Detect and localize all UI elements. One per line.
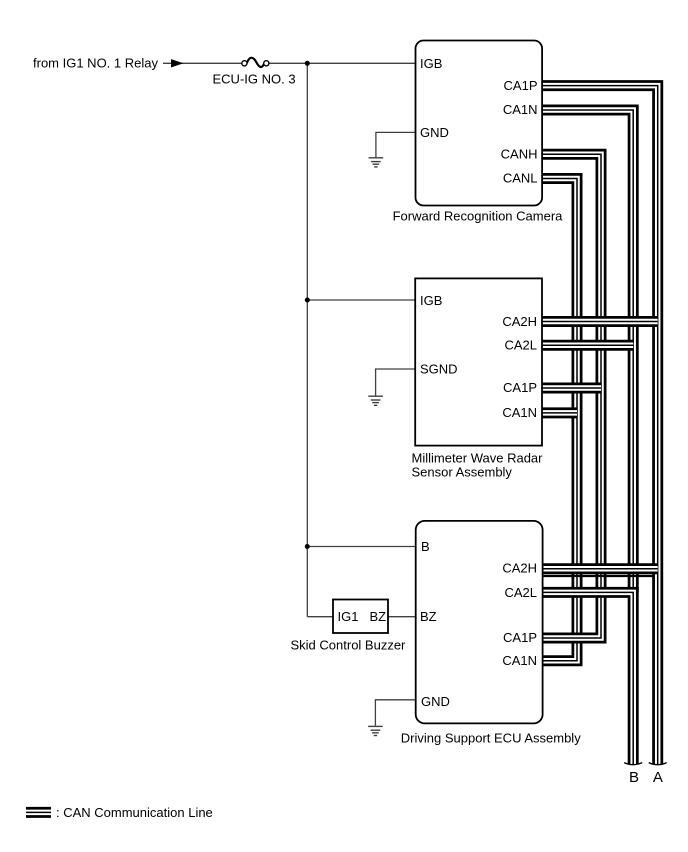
node: junction dot at ECU B branch <box>305 544 310 549</box>
svg-text:BZ: BZ <box>420 609 437 624</box>
svg-text:SGND: SGND <box>420 362 458 377</box>
wire: ECU GND lead <box>375 700 416 726</box>
wire: radar CA1P bundle to net CANH <box>542 383 601 394</box>
svg-text:B: B <box>421 539 430 554</box>
svg-text:CA2H: CA2H <box>502 560 537 575</box>
svg-text:CA2L: CA2L <box>504 338 537 353</box>
arrow: feed direction arrow head <box>171 59 184 67</box>
svg-text:CA1P: CA1P <box>503 380 537 395</box>
ground: camera GND earth symbol <box>369 158 384 167</box>
svg-text:CA1P: CA1P <box>503 630 537 645</box>
svg-text:Skid Control Buzzer: Skid Control Buzzer <box>291 637 407 652</box>
svg-text:IGB: IGB <box>420 56 442 71</box>
svg-text:CANL: CANL <box>503 171 538 186</box>
svg-text:CA1P: CA1P <box>504 78 538 93</box>
node: stub A break symbol <box>649 763 667 765</box>
wire: buzzer feed horizontal to IG1 pin <box>307 616 333 618</box>
wire: main IG vertical bus x=306 down to buzzer row <box>306 63 308 616</box>
svg-text:BZ: BZ <box>370 609 387 624</box>
legend: CAN line sample symbol <box>26 807 51 818</box>
ground: radar SGND earth symbol <box>368 396 383 405</box>
CAN net CANH: camera CANH down x=601.5 to ECU CA1P <box>543 154 602 638</box>
wire: ECU CA2H bundle to bus A <box>543 563 658 574</box>
component U1: Forward Recognition Camera box <box>416 41 543 206</box>
svg-text:Millimeter Wave Radar: Millimeter Wave Radar <box>412 451 544 466</box>
svg-text:Sensor Assembly: Sensor Assembly <box>412 465 513 480</box>
ground: ECU GND earth symbol <box>368 726 383 735</box>
svg-text:IGB: IGB <box>420 293 442 308</box>
wire: radar CA2H bundle to bus A <box>542 316 658 327</box>
svg-text:Driving Support ECU Assembly: Driving Support ECU Assembly <box>401 731 581 746</box>
wire: radar CA1N bundle to net CANL <box>542 407 577 418</box>
node: stub B break symbol <box>624 763 642 765</box>
wire: branch to ECU pin B <box>307 546 416 548</box>
svg-text:B: B <box>629 769 639 786</box>
svg-text:CA2H: CA2H <box>502 314 537 329</box>
svg-text:Forward Recognition Camera: Forward Recognition Camera <box>393 208 564 223</box>
wire: ECU CA2H fourth line <box>543 575 653 577</box>
CAN bus B line: camera CA1N down to ECU CA2L row (x=633.2) <box>543 110 634 592</box>
wire: IG1 feed horizontal from arrow to camera IGB <box>163 62 243 64</box>
wire: buzzer BZ to ECU BZ <box>388 616 416 618</box>
wire: ECU CA2L bundle corner down to stub B <box>543 592 633 764</box>
svg-text:IG1: IG1 <box>338 609 359 624</box>
svg-text:GND: GND <box>420 125 449 140</box>
svg-text:CA2L: CA2L <box>504 585 537 600</box>
svg-text:CANH: CANH <box>501 147 538 162</box>
node: junction dot at fuse output <box>305 61 310 66</box>
svg-text:CA1N: CA1N <box>502 653 537 668</box>
svg-text:ECU-IG NO. 3: ECU-IG NO. 3 <box>213 72 296 87</box>
fuse F ECU-IG NO. 3 <box>242 58 269 67</box>
svg-text:from IG1 NO. 1 Relay: from IG1 NO. 1 Relay <box>33 56 158 71</box>
component U3: Driving Support ECU Assembly box <box>416 521 543 724</box>
wire: camera GND lead <box>376 132 415 157</box>
svg-text:A: A <box>653 769 663 786</box>
component U2: Millimeter Wave Radar Sensor Assembly box <box>415 278 542 445</box>
svg-text:CA1N: CA1N <box>503 102 538 117</box>
CAN net CANL: camera CANL down x=577 to ECU CA1N <box>543 179 578 661</box>
wire: radar CA2L bundle to bus B <box>542 340 633 351</box>
component BZ1: Skid Control Buzzer box <box>333 600 388 634</box>
svg-text:: CAN Communication Line: : CAN Communication Line <box>56 805 213 820</box>
CAN bus A line: camera CA1P down to stub A (x=657.7) <box>543 86 658 765</box>
wire: branch to radar IGB <box>307 299 415 301</box>
svg-text:GND: GND <box>421 694 450 709</box>
node: junction dot at radar IGB branch <box>305 298 310 303</box>
wire: radar SGND lead <box>376 369 415 396</box>
svg-text:CA1N: CA1N <box>502 405 537 420</box>
